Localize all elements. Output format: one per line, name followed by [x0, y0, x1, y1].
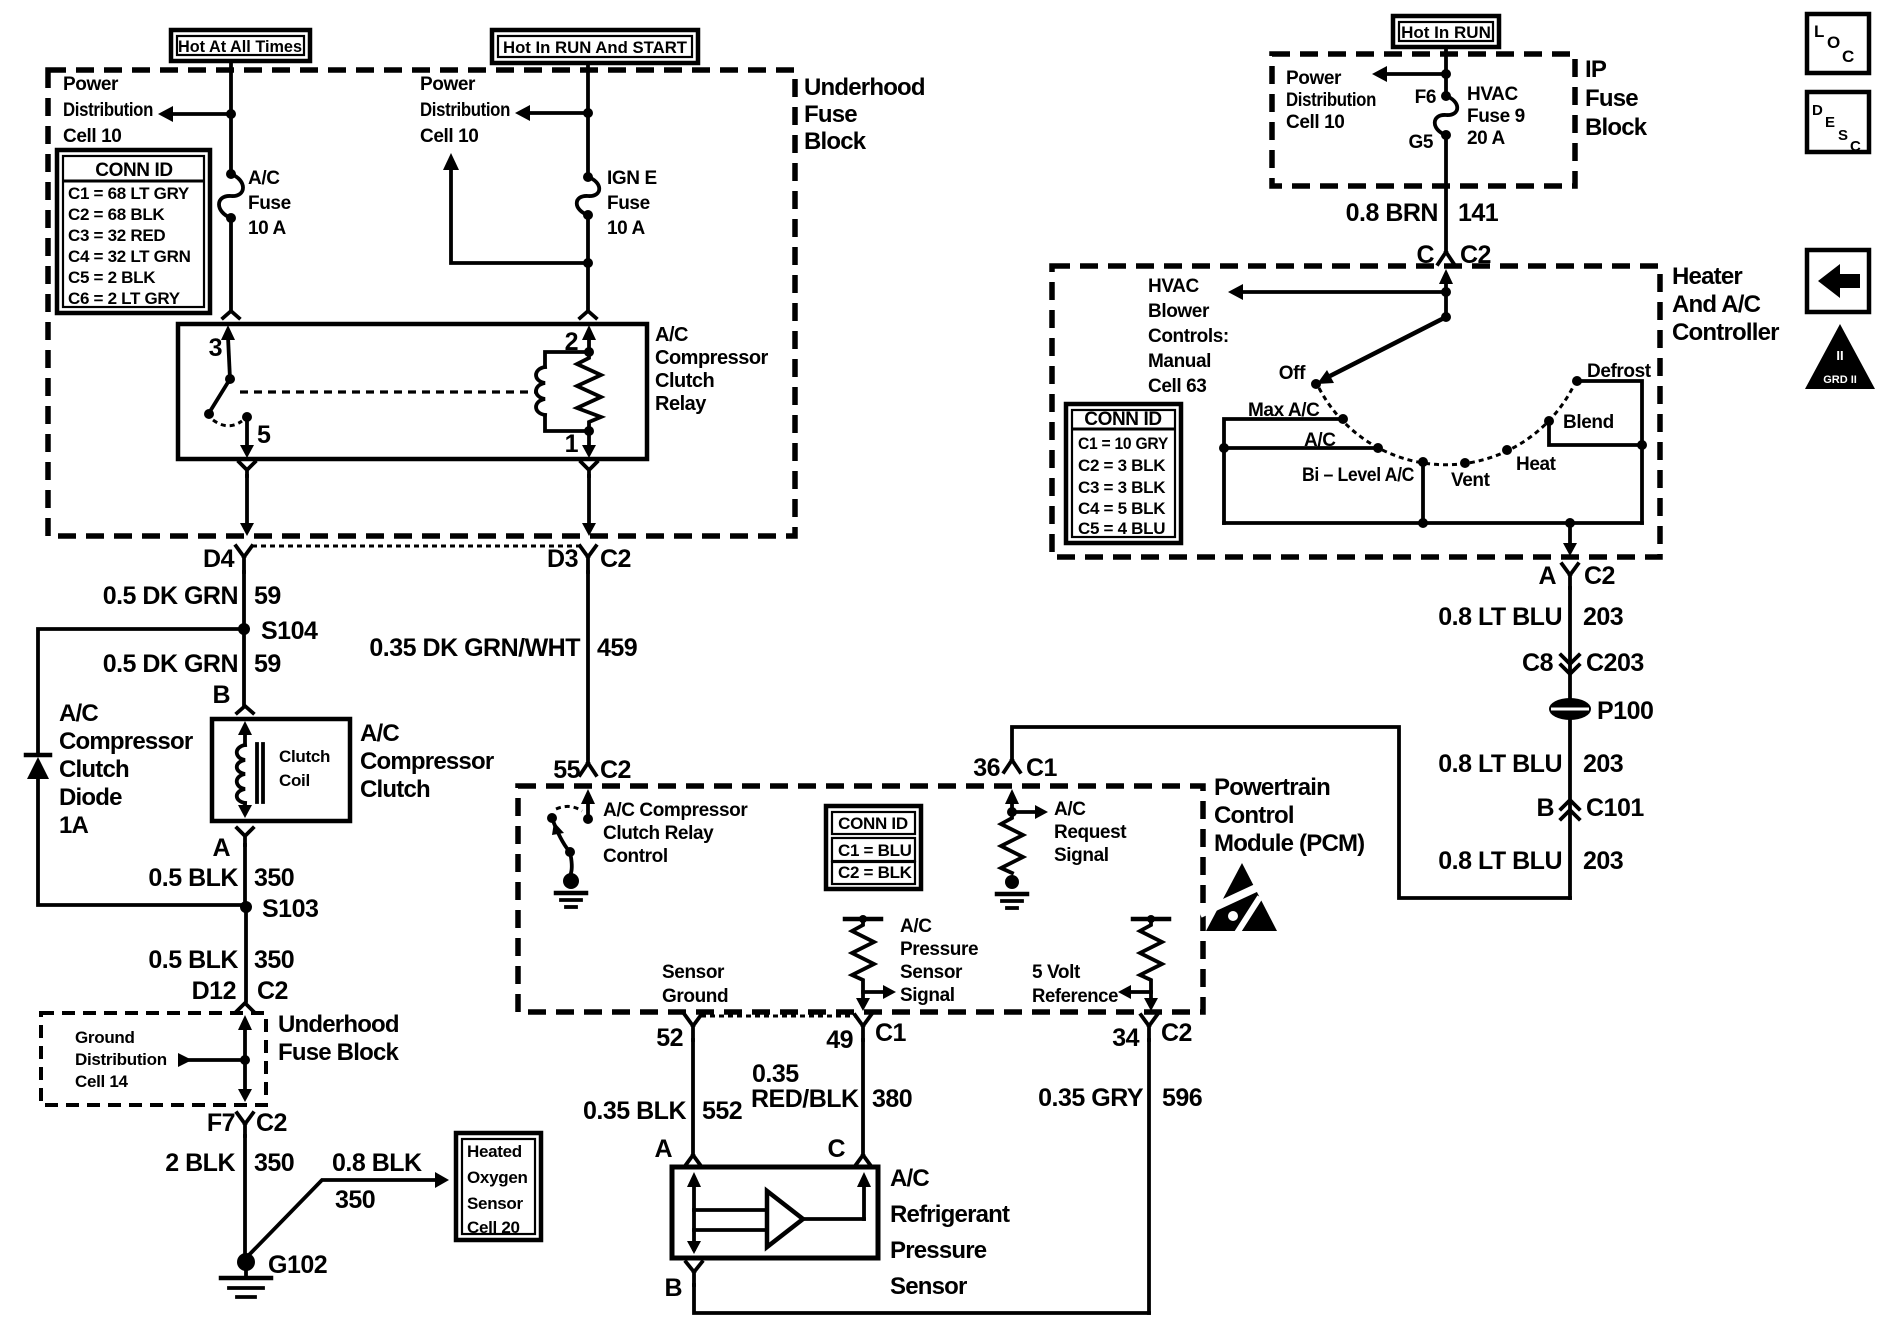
- wire D3 to 55: [586, 572, 590, 763]
- wire 34 to sensor: [1147, 1040, 1151, 1313]
- label underhood fuse block lower: [278, 1011, 399, 1066]
- wire controller feed entry: [1439, 269, 1453, 317]
- A/C pressure sensor signal resistor: [845, 915, 896, 1011]
- wire F7 to G102: [243, 1136, 247, 1258]
- rotary switch position arc: [1319, 385, 1574, 465]
- icon back arrow: [1807, 250, 1869, 312]
- svg-text:C2: C2: [1584, 562, 1615, 590]
- icon ground warning triangle: [1805, 324, 1875, 389]
- svg-text:Hot At All Times: Hot At All Times: [178, 37, 302, 56]
- svg-text:Distribution: Distribution: [75, 1050, 167, 1069]
- connector 36 C1: [973, 754, 1057, 782]
- wire pin1 to D3: [582, 476, 596, 536]
- svg-text:Control: Control: [603, 846, 668, 867]
- label A/C Fuse 10 A: [248, 168, 291, 239]
- wire ground distribution branch: [178, 1053, 245, 1067]
- relay box A/C Compressor Clutch Relay: [178, 324, 647, 459]
- svg-text:141: 141: [1458, 199, 1499, 227]
- svg-text:59: 59: [254, 582, 281, 610]
- svg-text:II: II: [1836, 348, 1843, 363]
- wire battery feed: [229, 61, 233, 311]
- svg-text:B: B: [212, 681, 230, 709]
- svg-text:Distribution: Distribution: [420, 100, 510, 121]
- label A/C Compressor Clutch Relay Control: [603, 800, 748, 867]
- svg-text:34: 34: [1112, 1024, 1139, 1052]
- svg-text:552: 552: [702, 1097, 742, 1125]
- svg-text:Distribution: Distribution: [63, 100, 153, 121]
- wire Bi-Level branch: [1418, 462, 1428, 528]
- svg-text:A/C Compressor: A/C Compressor: [603, 800, 748, 821]
- svg-text:20 A: 20 A: [1467, 128, 1506, 149]
- relay actuation dashed link: [240, 390, 535, 393]
- node Vent: [1460, 458, 1470, 468]
- svg-text:C: C: [1842, 47, 1854, 66]
- wire A C2 down: [1568, 588, 1572, 898]
- connector A C2 controller: [1538, 562, 1615, 590]
- label Hot In RUN: [1393, 16, 1499, 47]
- PCM dashed border: [518, 786, 1203, 1012]
- svg-text:C3 = 32 RED: C3 = 32 RED: [68, 226, 165, 245]
- label Hot In RUN And START: [492, 30, 698, 63]
- svg-text:0.5 BLK: 0.5 BLK: [148, 946, 238, 974]
- relay resistor: [577, 352, 601, 431]
- relay switch travel arc: [213, 420, 242, 426]
- svg-text:C1 = 68 LT GRY: C1 = 68 LT GRY: [68, 184, 190, 203]
- connector C8 C203: [1522, 649, 1644, 677]
- label Powertrain Control Module (PCM): [1214, 774, 1364, 857]
- connector chevron relay pin2: [580, 311, 596, 318]
- wire pin5 to D4: [240, 476, 254, 536]
- svg-text:350: 350: [254, 864, 294, 892]
- svg-text:Controls:: Controls:: [1148, 326, 1229, 347]
- svg-text:C1: C1: [1026, 754, 1058, 782]
- svg-text:C1 = BLU: C1 = BLU: [838, 841, 912, 860]
- CONN ID table controller: [1066, 404, 1181, 543]
- svg-text:Cell 10: Cell 10: [420, 126, 478, 147]
- wire D4 to S104: [242, 572, 246, 629]
- svg-text:Oxygen: Oxygen: [467, 1168, 528, 1187]
- diode loop wire: [38, 629, 246, 905]
- svg-text:S: S: [1838, 127, 1848, 144]
- svg-text:Underhood: Underhood: [278, 1011, 399, 1038]
- label clutch coil: [279, 747, 330, 790]
- svg-text:Control: Control: [1214, 802, 1294, 829]
- label 0.8 BRN 141: [1346, 199, 1499, 227]
- label IP Fuse Block: [1585, 56, 1648, 141]
- svg-text:Clutch: Clutch: [279, 747, 330, 766]
- label power distribution cell 10 left: [63, 74, 153, 147]
- svg-text:Power: Power: [420, 74, 476, 95]
- svg-text:S104: S104: [261, 617, 318, 645]
- svg-text:Clutch: Clutch: [360, 776, 430, 803]
- svg-text:A: A: [212, 834, 230, 862]
- svg-text:Signal: Signal: [1054, 845, 1109, 866]
- svg-text:C203: C203: [1586, 649, 1644, 677]
- wire A/C branch: [1219, 443, 1378, 453]
- wire ignition feed: [586, 63, 590, 311]
- label A/C Request Signal: [1054, 799, 1127, 866]
- svg-text:5: 5: [257, 421, 271, 449]
- label 0.8 LT BLU 203 third: [1438, 847, 1623, 875]
- IP fuse block dashed border: [1272, 54, 1575, 186]
- svg-text:C4 = 32 LT GRN: C4 = 32 LT GRN: [68, 247, 191, 266]
- svg-text:55: 55: [553, 756, 580, 784]
- svg-text:Compressor: Compressor: [59, 728, 193, 755]
- svg-text:Heater: Heater: [1672, 263, 1742, 290]
- fuse IGN E Fuse 10A: [577, 172, 600, 220]
- svg-text:Hot In RUN And START: Hot In RUN And START: [503, 38, 688, 57]
- label 0.5 DK GRN 59: [103, 582, 281, 610]
- svg-text:0.35 DK GRN/WHT: 0.35 DK GRN/WHT: [369, 634, 580, 662]
- wire branch to heated oxygen sensor: [246, 1172, 449, 1258]
- connector D12 C2: [192, 977, 288, 1011]
- CONN ID table PCM: [826, 806, 921, 889]
- svg-text:B: B: [664, 1274, 682, 1302]
- svg-text:C2: C2: [600, 545, 631, 573]
- relay pin 2 arrow: [565, 325, 596, 357]
- svg-text:O: O: [1827, 33, 1840, 52]
- connector dashed link 52-49: [701, 1015, 855, 1018]
- connector Y below pin5: [239, 462, 255, 476]
- svg-text:Refrigerant: Refrigerant: [890, 1201, 1010, 1228]
- A/C request signal resistor: [997, 789, 1048, 908]
- wire to power distribution 3: [1372, 66, 1446, 82]
- svg-text:203: 203: [1583, 603, 1623, 631]
- svg-text:10 A: 10 A: [607, 218, 646, 239]
- svg-text:F7: F7: [207, 1109, 235, 1137]
- label 0.35 DK GRN/WHT 459: [369, 634, 637, 662]
- svg-text:10 A: 10 A: [248, 218, 287, 239]
- svg-text:C1: C1: [875, 1019, 907, 1047]
- connector B clutch: [212, 681, 253, 713]
- label IGN E Fuse 10 A: [607, 168, 657, 239]
- label 0.35 GRY 596: [1038, 1084, 1202, 1112]
- svg-text:Block: Block: [804, 128, 867, 155]
- connector 49 C1: [826, 1015, 906, 1054]
- svg-text:203: 203: [1583, 847, 1623, 875]
- ground G102: [221, 1251, 327, 1297]
- node Blend: [1544, 416, 1554, 426]
- label 2 BLK 350: [165, 1149, 294, 1177]
- svg-text:D12: D12: [192, 977, 236, 1005]
- rotary switch wiper: [1317, 312, 1451, 384]
- svg-text:C2 = BLK: C2 = BLK: [838, 863, 913, 882]
- svg-text:S103: S103: [262, 895, 318, 923]
- svg-text:CONN ID: CONN ID: [1084, 409, 1161, 430]
- svg-text:Off: Off: [1279, 363, 1306, 384]
- svg-text:Pressure: Pressure: [890, 1237, 987, 1264]
- svg-text:Cell 14: Cell 14: [75, 1072, 129, 1091]
- wire through fuse block: [238, 1015, 252, 1102]
- svg-text:459: 459: [597, 634, 637, 662]
- svg-text:0.35 GRY: 0.35 GRY: [1038, 1084, 1144, 1112]
- label 0.35 BLK 552: [583, 1097, 742, 1125]
- svg-text:Cell 10: Cell 10: [1286, 112, 1344, 133]
- label 5 Volt Reference: [1032, 962, 1118, 1007]
- svg-text:C4 = 5 BLK: C4 = 5 BLK: [1078, 499, 1166, 518]
- svg-text:Blend: Blend: [1563, 412, 1614, 433]
- svg-text:Fuse: Fuse: [1585, 85, 1638, 112]
- svg-text:D: D: [1812, 102, 1823, 119]
- svg-text:Cell 20: Cell 20: [467, 1218, 520, 1237]
- svg-text:Block: Block: [1585, 114, 1648, 141]
- label ground distribution cell 14: [75, 1028, 167, 1091]
- wire hot in run feed: [1444, 47, 1448, 252]
- label HVAC Fuse 9 20 A: [1467, 84, 1525, 149]
- svg-text:36: 36: [973, 754, 1000, 782]
- svg-text:Powertrain: Powertrain: [1214, 774, 1330, 801]
- svg-text:C8: C8: [1522, 649, 1554, 677]
- svg-text:0.8 BLK: 0.8 BLK: [332, 1149, 422, 1177]
- svg-text:C2 = 3 BLK: C2 = 3 BLK: [1078, 456, 1166, 475]
- svg-text:Heated: Heated: [467, 1142, 522, 1161]
- svg-text:59: 59: [254, 650, 281, 678]
- connector 55 C2: [553, 756, 631, 784]
- svg-text:Distribution: Distribution: [1286, 90, 1376, 111]
- svg-text:B: B: [1536, 794, 1554, 822]
- svg-text:C101: C101: [1586, 794, 1644, 822]
- grommet P100: [1549, 697, 1653, 725]
- svg-text:A/C: A/C: [360, 720, 399, 747]
- svg-text:596: 596: [1162, 1084, 1202, 1112]
- svg-text:0.35 BLK: 0.35 BLK: [583, 1097, 686, 1125]
- sensor internal circuit: [687, 1172, 871, 1254]
- wire A to S103: [243, 845, 247, 905]
- node Heat: [1502, 445, 1512, 455]
- svg-text:350: 350: [254, 946, 294, 974]
- wire PCM36 loop to heater controller: [1012, 727, 1570, 898]
- svg-text:D4: D4: [203, 545, 235, 573]
- svg-text:Ground: Ground: [662, 986, 728, 1007]
- svg-text:C: C: [827, 1135, 845, 1163]
- svg-text:380: 380: [872, 1085, 912, 1113]
- label 0.5 BLK 350 second: [148, 946, 294, 974]
- relay pin 3 arrow: [209, 325, 235, 379]
- svg-text:Bi – Level A/C: Bi – Level A/C: [1302, 465, 1415, 486]
- connector Y below pin1: [581, 462, 597, 476]
- relay coil: [536, 352, 589, 431]
- svg-text:49: 49: [826, 1026, 853, 1054]
- svg-text:C1 = 10 GRY: C1 = 10 GRY: [1078, 434, 1169, 453]
- label A/C Pressure Sensor Signal: [900, 916, 978, 1006]
- label A/C Refrigerant Pressure Sensor: [890, 1165, 1010, 1300]
- svg-text:Manual: Manual: [1148, 351, 1211, 372]
- svg-text:Relay: Relay: [655, 393, 707, 415]
- svg-text:F6: F6: [1415, 87, 1436, 108]
- label HVAC Blower Controls Manual Cell 63: [1148, 276, 1229, 397]
- wire S103 to D12: [244, 907, 248, 1001]
- svg-text:A: A: [1538, 562, 1556, 590]
- svg-text:Defrost: Defrost: [1587, 361, 1652, 382]
- svg-text:A: A: [654, 1135, 672, 1163]
- svg-text:3: 3: [209, 334, 222, 362]
- label 0.5 BLK 350: [148, 864, 294, 892]
- svg-text:HVAC: HVAC: [1467, 84, 1519, 105]
- svg-text:0.5 DK GRN: 0.5 DK GRN: [103, 582, 238, 610]
- A/C compressor clutch box: [212, 719, 350, 821]
- ground distribution dashed box: [41, 1013, 266, 1105]
- svg-text:0.8 LT BLU: 0.8 LT BLU: [1438, 603, 1562, 631]
- connector dashed link D4-D3: [252, 545, 580, 548]
- svg-text:Hot In RUN: Hot In RUN: [1401, 23, 1491, 42]
- connector F7 C2: [207, 1109, 287, 1137]
- svg-text:GRD II: GRD II: [1823, 374, 1857, 386]
- svg-text:And A/C: And A/C: [1672, 291, 1761, 318]
- connector 52: [656, 1015, 701, 1052]
- svg-text:Ground: Ground: [75, 1028, 135, 1047]
- svg-text:IP: IP: [1585, 56, 1607, 83]
- relay pin 1: [565, 426, 596, 458]
- label 0.35 RED/BLK 380: [751, 1060, 912, 1113]
- label power distribution cell 10 mid: [420, 74, 510, 147]
- wire 52 to A: [691, 1040, 695, 1155]
- node A/C: [1373, 443, 1383, 453]
- underhood fuse block border: [48, 70, 795, 536]
- svg-text:A/C: A/C: [655, 324, 688, 346]
- diode A/C compressor clutch diode: [26, 755, 50, 779]
- connector chevron relay pin3: [223, 311, 239, 318]
- svg-text:Controller: Controller: [1672, 319, 1779, 346]
- svg-text:C2: C2: [1161, 1019, 1192, 1047]
- svg-text:Diode: Diode: [59, 784, 122, 811]
- svg-text:A/C: A/C: [890, 1165, 929, 1192]
- svg-text:Compressor: Compressor: [360, 748, 494, 775]
- connector B sensor: [664, 1262, 702, 1302]
- svg-text:C5 = 2 BLK: C5 = 2 BLK: [68, 268, 156, 287]
- wire to HVAC blower controls: [1228, 284, 1446, 300]
- label A/C Compressor Clutch Relay: [655, 324, 769, 415]
- svg-text:0.35: 0.35: [752, 1060, 799, 1088]
- svg-text:C2: C2: [257, 977, 288, 1005]
- wire S104 to B: [242, 629, 246, 706]
- label 0.8 LT BLU 203 second: [1438, 750, 1623, 778]
- svg-text:Sensor: Sensor: [900, 962, 963, 983]
- ESD symbol: [1200, 863, 1277, 933]
- svg-text:2 BLK: 2 BLK: [165, 1149, 235, 1177]
- wire bottom bus: [1224, 521, 1642, 525]
- svg-text:0.8 LT BLU: 0.8 LT BLU: [1438, 847, 1562, 875]
- label 0.8 LT BLU 203 first: [1438, 603, 1623, 631]
- svg-text:A/C: A/C: [900, 916, 932, 937]
- svg-text:A/C: A/C: [248, 168, 280, 189]
- node Bi-Level A/C: [1418, 457, 1428, 467]
- svg-text:Coil: Coil: [279, 771, 310, 790]
- connector C sensor: [827, 1135, 871, 1166]
- svg-text:Fuse: Fuse: [804, 101, 857, 128]
- svg-text:L: L: [1814, 22, 1824, 41]
- label A/C Compressor Clutch Diode 1A: [59, 700, 193, 839]
- svg-text:IGN E: IGN E: [607, 168, 657, 189]
- svg-text:C2 = 68 BLK: C2 = 68 BLK: [68, 205, 165, 224]
- clutch coil element: [237, 721, 263, 818]
- svg-text:Sensor: Sensor: [662, 962, 725, 983]
- svg-text:Sensor: Sensor: [890, 1273, 967, 1300]
- svg-text:Fuse Block: Fuse Block: [278, 1039, 399, 1066]
- label A/C Compressor Clutch: [360, 720, 494, 803]
- svg-text:5 Volt: 5 Volt: [1032, 962, 1081, 983]
- svg-text:Signal: Signal: [900, 985, 955, 1006]
- splice S103: [240, 895, 318, 923]
- label 0.5 DK GRN 59 second: [103, 650, 281, 678]
- svg-text:C3 = 3 BLK: C3 = 3 BLK: [1078, 478, 1166, 497]
- wire Max A/C branch: [1224, 419, 1343, 523]
- icon LOC: [1807, 14, 1869, 73]
- node power dist 1: [226, 109, 236, 119]
- svg-text:Sensor: Sensor: [467, 1194, 524, 1213]
- svg-text:Fuse: Fuse: [607, 193, 650, 214]
- svg-text:1A: 1A: [59, 812, 89, 839]
- svg-text:Vent: Vent: [1451, 470, 1491, 491]
- svg-text:Power: Power: [1286, 68, 1342, 89]
- svg-text:350: 350: [254, 1149, 294, 1177]
- wire to power distribution cell 10: [158, 106, 231, 122]
- svg-text:1: 1: [565, 430, 579, 458]
- label Hot At All Times: [171, 30, 310, 61]
- svg-text:Cell 10: Cell 10: [63, 126, 121, 147]
- label Sensor Ground: [662, 962, 728, 1007]
- svg-text:Clutch: Clutch: [655, 370, 714, 392]
- svg-text:CONN ID: CONN ID: [95, 160, 172, 181]
- svg-text:350: 350: [335, 1186, 375, 1214]
- label 0.8 BLK 350: [332, 1149, 422, 1214]
- connector B C101: [1536, 794, 1644, 822]
- node Max A/C: [1338, 414, 1348, 424]
- 5 volt reference resistor: [1118, 915, 1169, 1011]
- svg-text:Module (PCM): Module (PCM): [1214, 830, 1364, 857]
- svg-text:Pressure: Pressure: [900, 939, 978, 960]
- node Defrost: [1572, 376, 1582, 386]
- svg-text:Blower: Blower: [1148, 301, 1210, 322]
- connector A clutch: [212, 828, 253, 862]
- wire to power distribution 2: [515, 105, 588, 121]
- fuse A/C Fuse 10A: [219, 169, 243, 223]
- connector D4: [203, 545, 252, 573]
- svg-text:52: 52: [656, 1024, 683, 1052]
- label power distribution cell 10 right: [1286, 68, 1376, 133]
- svg-text:Clutch: Clutch: [59, 756, 129, 783]
- label Heater And A/C Controller: [1672, 263, 1779, 346]
- svg-text:Power: Power: [63, 74, 119, 95]
- CONN ID table underhood: [57, 150, 210, 313]
- svg-text:0.8 LT BLU: 0.8 LT BLU: [1438, 750, 1562, 778]
- connector D3 C2: [547, 545, 631, 573]
- svg-text:Clutch Relay: Clutch Relay: [603, 823, 714, 844]
- node Off: [1311, 379, 1321, 389]
- svg-text:0.8 BRN: 0.8 BRN: [1346, 199, 1438, 227]
- heater and A/C controller dashed border: [1052, 266, 1660, 557]
- A/C refrigerant pressure sensor box: [672, 1167, 878, 1258]
- heated oxygen sensor cell 20 box: [456, 1133, 541, 1240]
- svg-text:CONN ID: CONN ID: [838, 814, 908, 833]
- svg-text:Fuse: Fuse: [248, 193, 291, 214]
- svg-text:0.5 BLK: 0.5 BLK: [148, 864, 238, 892]
- wire 49 to C: [861, 1040, 865, 1155]
- svg-text:C2: C2: [600, 756, 631, 784]
- wire Defrost branch: [1577, 381, 1642, 523]
- svg-text:203: 203: [1583, 750, 1623, 778]
- relay pin 5: [240, 412, 271, 458]
- svg-text:Heat: Heat: [1516, 454, 1557, 475]
- svg-text:E: E: [1825, 114, 1835, 131]
- connector 34 C2: [1112, 1015, 1192, 1052]
- svg-text:C5 = 4 BLU: C5 = 4 BLU: [1078, 519, 1165, 538]
- svg-text:RED/BLK: RED/BLK: [751, 1085, 859, 1113]
- svg-text:Fuse 9: Fuse 9: [1467, 106, 1525, 127]
- wire up arrow branch: [443, 153, 593, 268]
- connector A sensor: [654, 1135, 701, 1166]
- op-amp sensor amplifier: [694, 1191, 864, 1247]
- svg-text:G5: G5: [1408, 132, 1433, 153]
